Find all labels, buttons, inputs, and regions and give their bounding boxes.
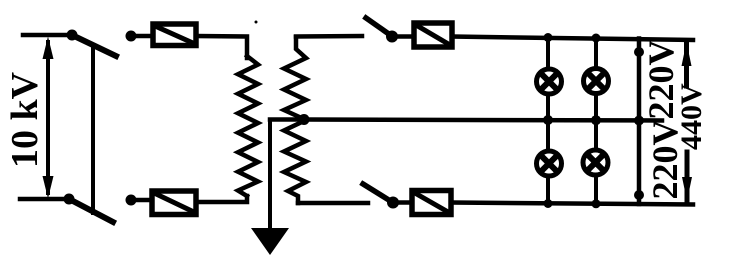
wire top tap slanted drop bbox=[74, 36, 116, 56]
node primary top terminal bbox=[126, 31, 137, 42]
wire lamp branch 2 bbox=[594, 38, 598, 204]
node primary bottom terminal bbox=[126, 195, 137, 206]
node branch1 top bbox=[544, 33, 553, 42]
arrowhead up 10kV bbox=[43, 37, 54, 60]
node branch2 middle bbox=[591, 115, 601, 125]
wire bottom tap slanted drop bbox=[71, 200, 113, 222]
wire right end bar bbox=[637, 39, 642, 205]
wire phase A top bbox=[452, 37, 693, 41]
node switch S2 bbox=[387, 197, 399, 209]
fuse F3 diagonal bbox=[416, 25, 450, 45]
node branch1 bottom bbox=[544, 199, 553, 208]
wire fuse F2 to terminal bbox=[136, 198, 152, 203]
wire secondary top to switch S1 bbox=[296, 34, 362, 39]
wire secondary bottom to switch S2 bbox=[298, 201, 368, 206]
lamp EL2 bbox=[584, 69, 609, 94]
wire centre tap to earth corner bbox=[270, 117, 306, 122]
switch S1 blade bbox=[366, 18, 391, 36]
wire 10kV top feeder stub bbox=[23, 33, 70, 38]
wire lamp branch 1 bbox=[546, 38, 550, 205]
ground earth arrow bbox=[251, 228, 289, 255]
svg-text:440V: 440V bbox=[675, 83, 708, 150]
arrowhead up 440V bbox=[682, 42, 692, 66]
dimension line 440V lower segment bbox=[685, 152, 690, 200]
fuse F4 diagonal bbox=[414, 193, 449, 213]
node branch1 middle bbox=[543, 115, 553, 125]
speck bbox=[255, 21, 258, 24]
dimension line 10kV bbox=[46, 42, 50, 193]
fuse F2 body bbox=[152, 191, 196, 215]
fuse F2 diagonal bbox=[154, 193, 194, 212]
wire neutral middle bbox=[306, 120, 662, 121]
wire fuse F1 to primary bbox=[196, 36, 247, 58]
node right bar middle bbox=[634, 116, 644, 126]
node secondary centre tap bbox=[299, 114, 310, 125]
node top tap junction bbox=[67, 30, 78, 41]
wire phase B bottom bbox=[451, 203, 693, 205]
wire 10kV bottom feeder stub bbox=[20, 197, 66, 202]
node branch2 top bbox=[592, 34, 601, 43]
wire switch S2 to fuse F4 bbox=[399, 200, 412, 205]
wire switch S1 to fuse F3 bbox=[397, 34, 414, 39]
fuse F3 body bbox=[414, 23, 452, 47]
node bottom tap junction bbox=[64, 194, 75, 205]
lamp EL3 bbox=[537, 151, 562, 176]
fuse F1 diagonal bbox=[155, 26, 194, 44]
node right bar top bbox=[634, 47, 644, 57]
svg-text:10 kV: 10 kV bbox=[4, 71, 46, 168]
winding primary W1 bbox=[238, 56, 258, 196]
arrowhead down 10kV bbox=[43, 176, 54, 199]
lamp EL1 bbox=[537, 69, 562, 94]
winding secondary W2 bbox=[284, 37, 306, 203]
wire primary bottom to fuse F2 bbox=[196, 196, 247, 202]
fuse F1 body bbox=[153, 24, 196, 46]
wire earth drop bbox=[268, 120, 272, 229]
lamp EL4 bbox=[583, 150, 608, 175]
node branch2 bottom bbox=[592, 199, 601, 208]
wire 10kV vertical line bbox=[91, 46, 95, 213]
wire to fuse F1 bbox=[136, 34, 153, 39]
arrowhead down 440V bbox=[682, 177, 692, 201]
node right bar bottom bbox=[634, 190, 644, 200]
dimension line 440V upper segment bbox=[684, 42, 689, 86]
switch S2 blade bbox=[363, 184, 392, 202]
node switch S1 bbox=[386, 31, 398, 43]
fuse F4 body bbox=[412, 191, 451, 215]
